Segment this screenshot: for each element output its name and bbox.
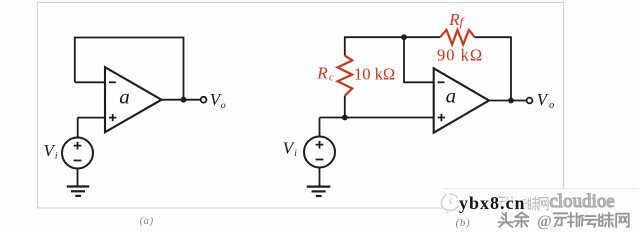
svg-text:i: i — [294, 149, 297, 159]
op-amp U2 minus pin sign — [438, 81, 445, 83]
watermark band cover bottom — [494, 211, 640, 232]
svg-text:R: R — [448, 10, 460, 29]
wire non-inverting input b — [320, 117, 434, 119]
ground b — [307, 186, 331, 188]
wire output a — [162, 99, 202, 101]
svg-text:a: a — [119, 85, 130, 109]
svg-text:@: @ — [537, 213, 552, 230]
svg-text:(b): (b) — [456, 217, 471, 229]
watermark band edge — [443, 188, 638, 190]
op-amp U1 plus pin sign — [109, 114, 116, 121]
source V1 minus sign — [74, 160, 82, 162]
wire inverting input a — [75, 81, 105, 83]
node feedback junction b — [401, 34, 407, 40]
node output junction b — [508, 98, 514, 104]
wire inverting input b — [404, 37, 434, 82]
watermark icon — [441, 194, 458, 213]
source V1 plus sign — [74, 142, 82, 150]
source V1 circle a — [62, 138, 93, 169]
watermark band cover top — [443, 189, 640, 213]
wire output b — [489, 100, 527, 102]
wire feedback loop a: output node up, across top, down to inverting input — [75, 38, 184, 100]
source V2 minus sign — [316, 159, 324, 161]
figure border frame — [37, 3, 563, 209]
watermark gray text line2: 头条 @ 万物云联网 — [499, 213, 530, 229]
op-amp U1 triangle a — [105, 67, 162, 132]
op-amp U1 minus pin sign — [109, 81, 116, 83]
svg-text:90 kΩ: 90 kΩ — [437, 45, 483, 64]
svg-text:(a): (a) — [139, 215, 153, 227]
wire Rc bottom b — [344, 96, 346, 118]
svg-text:R: R — [316, 63, 328, 82]
svg-text:c: c — [329, 72, 334, 83]
wire Vi source bottom a — [77, 169, 79, 187]
svg-text:a: a — [446, 83, 457, 107]
wire Vi source bottom b — [319, 168, 321, 187]
wire non-inverting input a — [78, 117, 105, 119]
source V2 plus sign — [316, 141, 324, 149]
watermark gray text line1 CJK: 万物云联网 — [495, 197, 549, 212]
svg-text:o: o — [221, 101, 226, 111]
resistor Rc zigzag — [338, 56, 353, 96]
node Rc bottom junction b — [342, 115, 348, 121]
terminal Vo open circle b — [527, 98, 533, 104]
terminal Vo open circle a — [201, 97, 207, 103]
svg-text:o: o — [549, 100, 554, 111]
svg-text:10 kΩ: 10 kΩ — [354, 65, 395, 84]
wire top feedback right b: from Rf down to output node — [475, 37, 511, 100]
svg-text:ybx8.cn: ybx8.cn — [459, 193, 526, 213]
svg-text:i: i — [55, 151, 58, 161]
wire Vi source top a — [77, 118, 79, 138]
wire top feedback left b: from Rc top to Rf — [345, 37, 440, 55]
op-amp U2 plus pin sign — [438, 114, 445, 121]
source V2 circle b — [304, 137, 335, 168]
resistor Rf zigzag — [440, 30, 475, 45]
ground a — [67, 185, 90, 187]
svg-text:cloudioe: cloudioe — [550, 192, 615, 212]
node output junction a — [181, 97, 187, 103]
wire Vi source top b — [319, 118, 321, 137]
op-amp U2 triangle b — [434, 68, 489, 132]
